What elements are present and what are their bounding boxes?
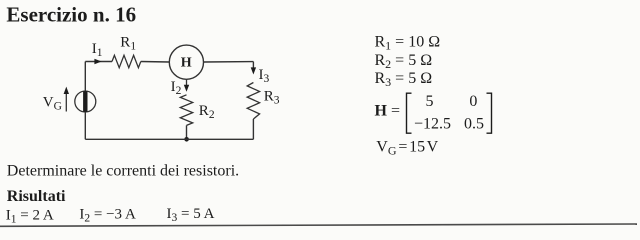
resistor R1 (zigzag) (112, 55, 141, 67)
two-port U1 (circle H) (169, 45, 203, 79)
svg-text:−12.5: −12.5 (414, 115, 451, 132)
current arrow I3 (251, 67, 256, 74)
svg-text:R1 = 10 Ω: R1 = 10 Ω (375, 34, 441, 53)
svg-text:I1 = 2 A: I1 = 2 A (6, 208, 54, 226)
wire top-left segment (85, 61, 112, 63)
svg-text:H: H (181, 56, 192, 71)
svg-text:I1: I1 (92, 41, 103, 59)
bottom horizontal rule (0, 224, 637, 226)
svg-text:Determinare le correnti dei re: Determinare le correnti dei resistori. (7, 163, 239, 180)
junction node (184, 137, 189, 142)
resistor R3 (zigzag) (247, 83, 259, 120)
svg-text:I3: I3 (259, 67, 270, 85)
wire H to top-right corner (204, 61, 254, 63)
matrix left bracket (407, 93, 412, 133)
svg-text:5: 5 (426, 93, 434, 110)
current arrow I2 (184, 85, 189, 92)
svg-text:Esercizio n. 16: Esercizio n. 16 (6, 2, 136, 26)
voltage source VG (circle with bar) (75, 91, 96, 112)
svg-text:H =: H = (375, 102, 400, 119)
svg-text:R3: R3 (264, 89, 280, 107)
svg-text:R2: R2 (199, 103, 215, 121)
wire R3 to bottom rail (252, 119, 254, 139)
svg-text:VG: VG (43, 94, 62, 112)
svg-text:R3 = 5 Ω: R3 = 5 Ω (375, 70, 433, 89)
svg-text:I3 = 5 A: I3 = 5 A (167, 206, 215, 224)
resistor R2 (zigzag) (180, 95, 192, 126)
svg-text:R1: R1 (120, 35, 136, 53)
svg-text:I2 = −3 A: I2 = −3 A (79, 207, 136, 225)
svg-text:Risultati: Risultati (7, 188, 66, 205)
wire H bottom stub (186, 79, 188, 86)
svg-text:I2: I2 (171, 79, 182, 97)
wire R1 to H (141, 61, 170, 64)
svg-text:0.5: 0.5 (464, 115, 484, 132)
wire R2 to bottom rail (186, 125, 188, 139)
wire left vertical (VG branch) (84, 62, 86, 140)
wire right vertical top stub (252, 62, 254, 68)
current arrow I1 (94, 59, 101, 64)
wire bottom rail (85, 138, 253, 140)
svg-text:VG = 15 V: VG = 15 V (376, 138, 438, 157)
matrix right bracket (487, 93, 492, 133)
svg-text:R2 = 5 Ω: R2 = 5 Ω (375, 52, 433, 71)
svg-text:0: 0 (469, 93, 477, 110)
VG reference arrow (64, 87, 69, 112)
